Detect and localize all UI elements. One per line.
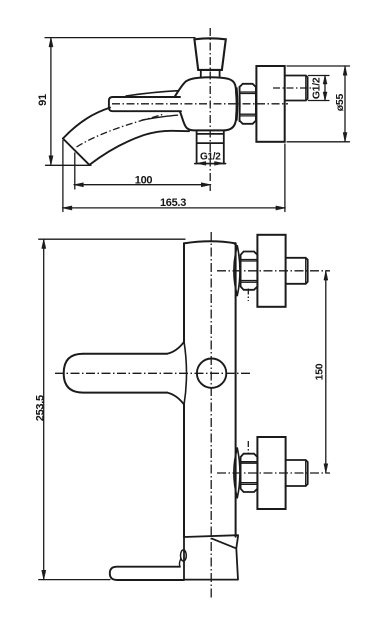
outlet stub (top view, G1/2 shower outlet) [197, 131, 224, 164]
spout pipe ellipse [181, 550, 187, 561]
arrow down 253.5 [42, 570, 46, 579]
arrow left G1/2 outlet [197, 162, 206, 166]
centerline stub below upper nut [247, 289, 249, 302]
lower union cone lens [234, 448, 240, 498]
body (top view) [175, 77, 237, 130]
upper stub chamfer [305, 258, 307, 284]
centerline spout axis [77, 114, 164, 147]
svg-text:91: 91 [37, 94, 49, 106]
dimension 91 line [50, 38, 52, 165]
lower stub chamfer [305, 460, 307, 486]
svg-text:G1/2: G1/2 [311, 77, 323, 99]
spout end bevel [63, 139, 90, 165]
dimension 253.5 extension lines [39, 239, 185, 579]
svg-text:ø55: ø55 [334, 94, 346, 112]
hex nut (top view) [240, 84, 256, 124]
stub chamfer line [305, 76, 307, 101]
upper escutcheon [257, 235, 285, 307]
svg-text:253.5: 253.5 [34, 395, 46, 421]
spout pipe lower fillet [179, 559, 180, 567]
centerline stub above lower nut [247, 441, 249, 454]
spout elbow block [184, 536, 238, 580]
upper union top joint [234, 243, 238, 246]
upper hex nut facets [241, 260, 258, 283]
lower escutcheon [257, 437, 285, 509]
dimension G1/2 wall stub extension lines [309, 76, 330, 101]
svg-text:100: 100 [135, 174, 153, 186]
cartridge circle [197, 359, 226, 388]
dimension G1/2 wall stub line [324, 76, 326, 101]
spout far top edge above bar [126, 91, 179, 96]
dimension 100 line [74, 184, 211, 186]
arrow down 91 [49, 156, 53, 165]
body (bottom view) left edge [183, 243, 185, 537]
dimension 165.3 extension lines [63, 141, 285, 212]
dimension 150 line [325, 271, 327, 473]
arrow up 91 [49, 38, 53, 47]
centerline vertical body axis (top view) [209, 28, 211, 182]
arrow left 165.3 [63, 206, 72, 210]
centerline lever axis (bottom view) [55, 372, 252, 374]
hex nut facet lines [240, 92, 256, 116]
arrow right G1/2 outlet [215, 162, 224, 166]
body bottom joint line [184, 535, 238, 537]
dimension ø55 line [344, 66, 346, 142]
dimension 100 extension line [75, 153, 210, 191]
centerline wall stub axis (top view) [273, 87, 314, 89]
handle neck [201, 70, 220, 78]
arrow up 150 [324, 271, 328, 280]
centerline vertical body axis (bottom view) [210, 232, 212, 600]
lever flare top [167, 342, 184, 354]
svg-text:G1/2: G1/2 [200, 152, 221, 163]
lower hex nut [241, 454, 258, 492]
upper wall stub [286, 258, 308, 284]
lever boss lens [184, 342, 187, 406]
svg-text:150: 150 [313, 363, 325, 380]
spout near inner edge [142, 115, 178, 120]
dimension 165.3 line [63, 207, 286, 209]
arrow down G1/2 [323, 92, 327, 101]
foot spout bar [110, 567, 184, 580]
body top dome [184, 241, 236, 243]
spout top edge [63, 108, 110, 139]
arrow down 150 [324, 464, 328, 473]
connection nut collar [237, 87, 240, 122]
svg-text:165.3: 165.3 [160, 197, 186, 209]
arrow up 253.5 [42, 239, 46, 248]
outlet stub bottom edge [195, 163, 226, 165]
dimension 91 extension lines [45, 38, 195, 166]
lever flare bottom [167, 393, 184, 405]
lever bar (bottom view) [64, 354, 167, 393]
arrow right 165.3 [276, 206, 285, 210]
arrow up G1/2 [323, 76, 327, 85]
centerline horizontal main axis (top view) [112, 103, 288, 105]
body (bottom view) right edge [235, 243, 237, 537]
lever bar (top view) [109, 97, 181, 111]
lower hex nut facets [241, 462, 258, 485]
dimension ø55 extension lines [287, 66, 350, 142]
arrow right 100 [201, 183, 210, 187]
arrow up ø55 [343, 66, 347, 75]
upper union cone lens [234, 246, 240, 296]
lower wall stub [286, 460, 308, 486]
dimension 253.5 line [43, 239, 45, 579]
spout bottom edge [89, 131, 189, 165]
wall inlet stub G1/2 (top view) [285, 76, 308, 101]
upper hex nut [241, 252, 258, 290]
centerline lower union axis [217, 472, 330, 474]
arrow down ø55 [343, 133, 347, 142]
centerline upper union axis [217, 270, 330, 272]
handle knob [194, 38, 225, 70]
arrow left 100 [74, 183, 83, 187]
wall escutcheon plate (top view) [256, 66, 284, 142]
